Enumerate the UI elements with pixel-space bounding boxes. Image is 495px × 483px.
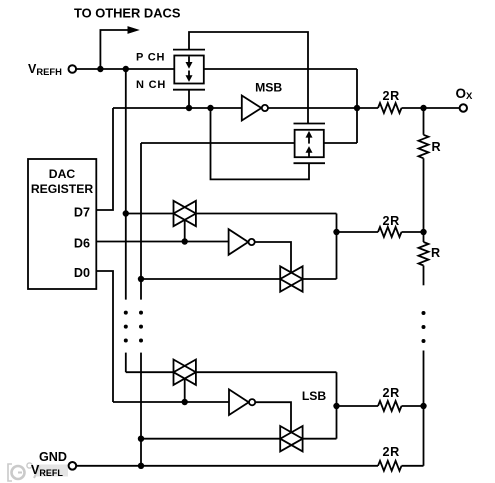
wire: U1 output to summing node: [268, 107, 378, 109]
wire: D6 from register to inverter: [96, 241, 228, 243]
transistor pair Q1 (P CH / N CH) body: [174, 56, 204, 84]
svg-text:MSB: MSB: [255, 81, 282, 95]
svg-text:VREFH: VREFH: [28, 62, 62, 77]
wire: D0 from register down: [96, 271, 113, 402]
resistor 2R (GND termination): [378, 461, 401, 471]
wire: S1 output to node column: [196, 213, 337, 215]
wire: LSB node column: [336, 372, 338, 439]
svg-text:D0: D0: [74, 266, 90, 280]
Q2 upper gate bar: [294, 123, 326, 125]
Q1 arrow down 2: [188, 71, 190, 77]
switch S3 (LSB to VREFH) bowtie: [174, 360, 196, 385]
switch S2 (D6 to VREFL) bowtie: [280, 266, 302, 291]
wire: node column vertical: [356, 69, 358, 143]
junction dot ladder rail LSB: [420, 403, 426, 409]
svg-text:2R: 2R: [382, 89, 400, 103]
wire: gate tie line top: [189, 32, 308, 124]
VREFH rail: [125, 69, 127, 300]
wire: 2R GND to ladder rail: [402, 465, 424, 467]
wire: VREFH terminal to transistor pair: [76, 68, 174, 70]
resistor R1: [419, 135, 429, 158]
svg-text:D6: D6: [74, 236, 90, 250]
terminal VREFH: [69, 65, 77, 73]
junction dot S1 control tap: [182, 238, 188, 244]
svg-text:LSB: LSB: [302, 389, 327, 403]
resistor R2: [419, 242, 429, 265]
wire: 2R LSB to ladder rail: [402, 405, 424, 407]
svg-text:TO OTHER DACS: TO OTHER DACS: [74, 6, 181, 21]
ellipsis dots VREFH rail: [124, 311, 128, 315]
ladder rail segment Ox to R1: [423, 108, 425, 135]
wire: U2 output to S2 control: [255, 242, 291, 273]
wire: D7 from register: [96, 108, 113, 210]
inverter U2 (D6): [229, 229, 249, 255]
wire: GND bus: [77, 465, 379, 467]
wire: VREFH rail elbow to S3: [126, 371, 174, 373]
wire: Q2 left channel to VREFL rail: [141, 142, 295, 144]
wire: D6 node to 2R: [337, 231, 379, 233]
wire: S3 output to node column: [196, 371, 337, 373]
svg-text:DAC: DAC: [49, 167, 76, 181]
wire: VREFL rail to S4: [141, 438, 280, 440]
svg-text:R: R: [432, 140, 441, 154]
junction dot VREFL rail tap D6: [138, 276, 144, 282]
svg-text:R: R: [431, 246, 440, 260]
junction dot D6 node: [333, 229, 339, 235]
ladder rail segment below R2: [423, 266, 425, 286]
wire: 2R to Ox: [402, 107, 460, 109]
svg-text:D7: D7: [74, 205, 90, 219]
junction dot LSB node: [333, 403, 339, 409]
transmission gate Q2 body: [295, 130, 324, 157]
Q2 arrow up 1: [306, 131, 313, 138]
terminal Ox: [460, 104, 467, 111]
wire: 2R to ladder rail: [402, 231, 424, 233]
DAC register box: [28, 159, 96, 289]
wire: VREFH rail tap to D6 top switch: [126, 213, 174, 215]
svg-text:2R: 2R: [382, 386, 400, 400]
svg-text:P CH: P CH: [136, 52, 165, 64]
wire: S4 output to node column: [303, 438, 337, 440]
wire: S3 control to LSB line: [184, 379, 186, 402]
wire: MSB line to inverter: [113, 107, 242, 109]
junction dot at VREFH rail top: [123, 66, 129, 72]
svg-text:2R: 2R: [382, 445, 400, 459]
junction dot 4-way node MSB: [354, 105, 360, 111]
switch S4 (LSB to VREFL) bowtie: [280, 426, 302, 451]
wire: LSB node to 2R: [337, 405, 379, 407]
wire: D6 node column: [336, 214, 338, 280]
Q1 arrow down 1: [188, 57, 190, 64]
Q2 lower gate bar: [294, 162, 326, 164]
wire: VREFL rail to S2: [141, 278, 280, 280]
inverter U1 (MSB): [242, 96, 262, 121]
Q1 N CH gate bar: [173, 89, 205, 91]
resistor 2R (D6): [378, 227, 401, 237]
Q1 P CH gate bar: [173, 49, 205, 51]
resistor 2R (MSB): [378, 103, 401, 113]
wire: Q1 output to node column: [204, 68, 357, 70]
wire: Q2 lower gate link: [211, 108, 310, 179]
wire: LSB line to inverter: [113, 401, 229, 403]
terminal GND/VREFL: [69, 462, 77, 470]
wire: Q1 N CH gate down to MSB line: [188, 90, 190, 108]
junction dot VREFH rail tap: [123, 210, 129, 216]
arrowhead to other DACs: [128, 26, 140, 34]
svg-text:GND: GND: [39, 450, 67, 464]
watermark: [8, 463, 68, 481]
wire: S1 control to D6 line: [184, 220, 186, 242]
ladder rail lower segment: [423, 351, 425, 466]
inverter U3 (LSB): [229, 389, 249, 415]
junction dot MSB/N CH gate: [186, 105, 192, 111]
svg-text:OX: OX: [456, 86, 474, 102]
wire: arrow riser from VREFH node up: [100, 30, 128, 69]
VREFL rail: [140, 143, 142, 300]
wire: Q2 right channel to node column: [324, 142, 357, 144]
ladder rail segment R1 to R2: [423, 158, 425, 242]
junction dot VREFL rail tap LSB: [138, 436, 144, 442]
ellipsis dots VREFL rail: [139, 311, 143, 315]
junction dot S3 control tap: [182, 399, 188, 405]
Q2 arrow up 2: [306, 146, 313, 153]
junction dot Ox node: [420, 105, 426, 111]
junction dot VREFL rail bottom: [138, 463, 144, 469]
svg-text:N CH: N CH: [136, 79, 166, 91]
switch S1 (D6 to VREFH) bowtie: [174, 201, 196, 226]
ellipsis dots ladder rail: [422, 311, 426, 315]
junction dot MSB/Q2 lower gate: [207, 105, 213, 111]
resistor 2R (LSB): [378, 401, 401, 411]
wire: S2 output to node column: [303, 278, 337, 280]
svg-text:REGISTER: REGISTER: [31, 182, 93, 196]
junction dot ladder rail D6: [420, 229, 426, 235]
junction dot at arrow riser: [97, 66, 103, 72]
wire: U3 output to S4 control: [255, 402, 291, 432]
svg-text:2R: 2R: [382, 214, 400, 228]
